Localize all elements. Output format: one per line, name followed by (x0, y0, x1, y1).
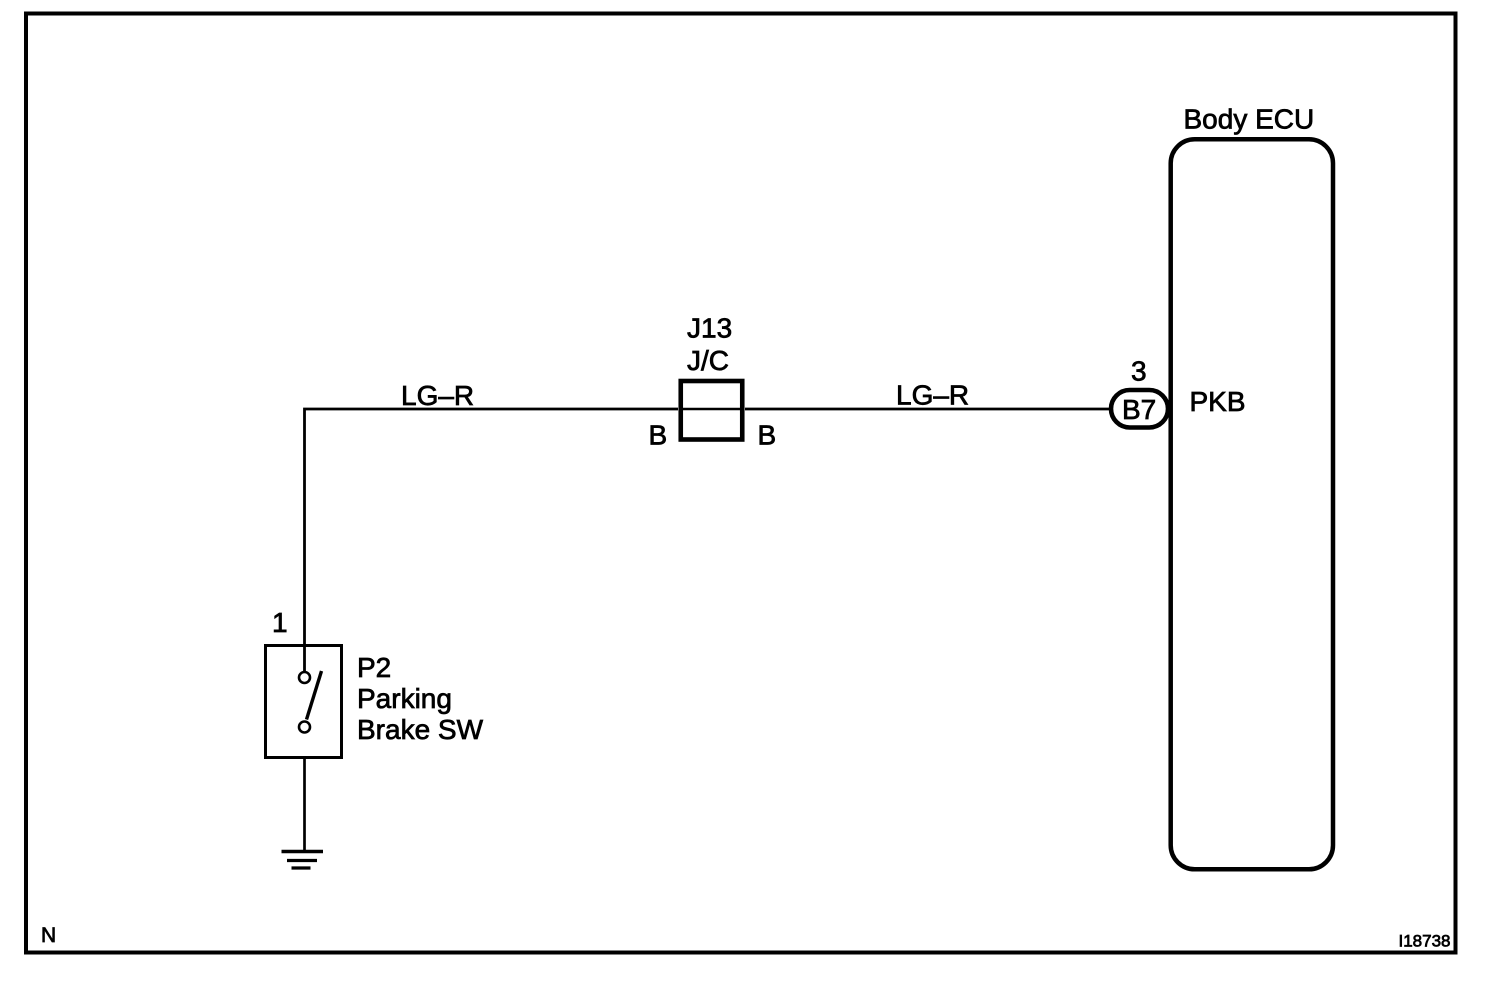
wire LG-R: J13 to Body ECU terminal B7 (745, 408, 1111, 411)
svg-text:B7: B7 (1122, 394, 1156, 425)
svg-text:I18738: I18738 (1399, 932, 1451, 951)
svg-text:Body ECU: Body ECU (1184, 104, 1315, 135)
switch P2 parking brake SW box (266, 646, 342, 758)
junction connector J13 J/C box (681, 381, 743, 440)
svg-text:N: N (41, 924, 56, 947)
svg-text:1: 1 (272, 607, 288, 638)
Body ECU block (1171, 139, 1333, 869)
wire: switch to ground (303, 759, 306, 850)
ground symbol (282, 852, 324, 869)
svg-text:B: B (758, 420, 777, 451)
switch contact terminal (bottom circle) (299, 722, 310, 733)
svg-text:B: B (649, 420, 668, 451)
wire LG-R: parking brake switch to junction J13 (305, 409, 679, 672)
svg-text:J13: J13 (687, 313, 732, 344)
svg-text:J/C: J/C (687, 345, 729, 376)
svg-text:LG–R: LG–R (896, 380, 969, 411)
svg-text:Brake SW: Brake SW (357, 714, 484, 745)
svg-text:PKB: PKB (1190, 386, 1246, 417)
connector oval B7 (terminal) (1111, 390, 1168, 428)
svg-text:P2: P2 (357, 652, 391, 683)
wire through J13 (683, 408, 742, 411)
svg-text:LG–R: LG–R (401, 380, 474, 411)
svg-text:3: 3 (1131, 356, 1147, 387)
switch contact terminal (top circle) (299, 672, 310, 683)
switch lever (307, 671, 322, 720)
svg-text:Parking: Parking (357, 683, 452, 714)
